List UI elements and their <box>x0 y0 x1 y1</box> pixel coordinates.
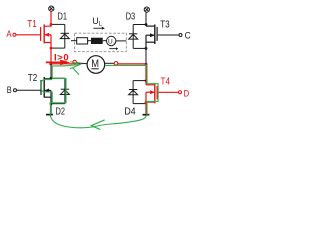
svg-text:D3: D3 <box>126 11 136 22</box>
svg-text:T2: T2 <box>28 73 38 84</box>
voltage arrow U_L <box>93 27 105 30</box>
current arrow I <box>46 60 71 66</box>
source U ind circle <box>107 36 116 45</box>
wire stub to motor left <box>77 62 88 65</box>
terminal C <box>179 30 191 41</box>
svg-text:M: M <box>91 58 99 70</box>
wire source to box edge <box>116 40 126 42</box>
diode D3 <box>129 25 138 49</box>
supply terminal plus right <box>144 7 149 12</box>
diode D2 <box>60 78 69 104</box>
svg-text:T4: T4 <box>161 76 171 87</box>
wire motor row left red <box>51 63 73 65</box>
svg-text:D4: D4 <box>124 106 136 117</box>
wire gate lead T4 to D <box>157 91 178 93</box>
wire left leg to motor row red <box>50 48 52 64</box>
dashed equivalent circuit box <box>75 33 127 52</box>
diode D1 <box>60 24 69 48</box>
node dot right D4 branch <box>145 79 148 82</box>
green swoosh bottom <box>50 115 146 128</box>
wire right leg to minus stub red <box>145 103 147 115</box>
wire right leg below motor red <box>145 64 147 85</box>
motor terminal circle left <box>73 60 77 64</box>
wire D2 top <box>51 77 65 79</box>
green arrow tail diagonal <box>73 68 79 75</box>
node dot right top <box>145 23 148 26</box>
node dot right mid <box>145 47 148 50</box>
wire right leg motor to T4 red <box>145 48 147 64</box>
supply terminal plus left <box>49 6 54 11</box>
green path motor right to T4 <box>105 65 158 115</box>
wire right leg top black <box>145 12 147 26</box>
transistor T3 <box>146 25 157 49</box>
wire gate lead B to T2 <box>17 89 41 91</box>
transistor T1 <box>41 24 51 48</box>
green freewheel path motor row left <box>52 64 80 66</box>
green arrowhead motor row <box>70 62 80 69</box>
motor terminal circle right <box>114 62 118 66</box>
svg-text:D: D <box>184 88 190 99</box>
green freewheel path left leg down <box>51 66 53 78</box>
wire left leg to minus stub <box>50 104 52 115</box>
wire left leg motor to T2 black <box>50 64 52 78</box>
node dot right bottom <box>145 101 148 104</box>
transistor T4 <box>146 84 157 104</box>
svg-text:D2: D2 <box>56 106 66 117</box>
wire D4 bottom <box>133 103 146 105</box>
svg-text:U: U <box>108 38 113 45</box>
green path D2 branch <box>50 78 66 115</box>
wire motor row right red <box>118 63 146 65</box>
inductor L filled <box>91 38 103 44</box>
wire L to source <box>103 40 107 42</box>
wire D1 bottom to leg <box>51 47 65 49</box>
wire gate lead T3 to C <box>157 34 179 36</box>
green arrowhead swoosh <box>91 120 104 130</box>
wire box lead left <box>71 40 77 42</box>
wire gate lead A to T1 <box>16 34 41 36</box>
label U_L <box>92 16 102 28</box>
svg-text:C: C <box>185 30 191 41</box>
svg-text:A: A <box>6 29 12 40</box>
supply terminal minus right <box>143 114 150 116</box>
wire D2 bottom <box>51 103 65 105</box>
wire top rail to D3 <box>133 24 146 26</box>
diode D4 <box>129 81 138 104</box>
motor M <box>87 56 105 74</box>
svg-text:D1: D1 <box>58 11 68 22</box>
wire D4 top <box>133 80 146 82</box>
node dot left bottom <box>50 102 53 105</box>
wire top rail to D1 <box>51 23 65 25</box>
wire stub motor right <box>105 62 115 64</box>
svg-text:T1: T1 <box>27 19 37 30</box>
svg-text:B: B <box>7 85 12 96</box>
wire D3 bottom to leg <box>133 47 146 49</box>
terminal A <box>6 29 16 40</box>
wire left leg top red <box>50 11 52 24</box>
node dot left D2 branch <box>50 77 53 80</box>
green path through T2 <box>41 80 52 104</box>
node dot left mid <box>50 47 53 50</box>
node dot left top <box>50 23 53 26</box>
resistor R <box>77 38 88 44</box>
svg-text:L: L <box>99 22 103 28</box>
terminal B <box>7 85 17 96</box>
node dot motor right <box>145 63 148 66</box>
supply terminal minus left <box>46 114 53 116</box>
terminal D <box>179 88 190 99</box>
node dot motor left <box>49 63 52 66</box>
svg-text:T3: T3 <box>160 20 170 31</box>
wire R to L <box>88 40 91 42</box>
transistor T2 <box>41 77 51 104</box>
voltage arrow under source <box>109 47 118 50</box>
